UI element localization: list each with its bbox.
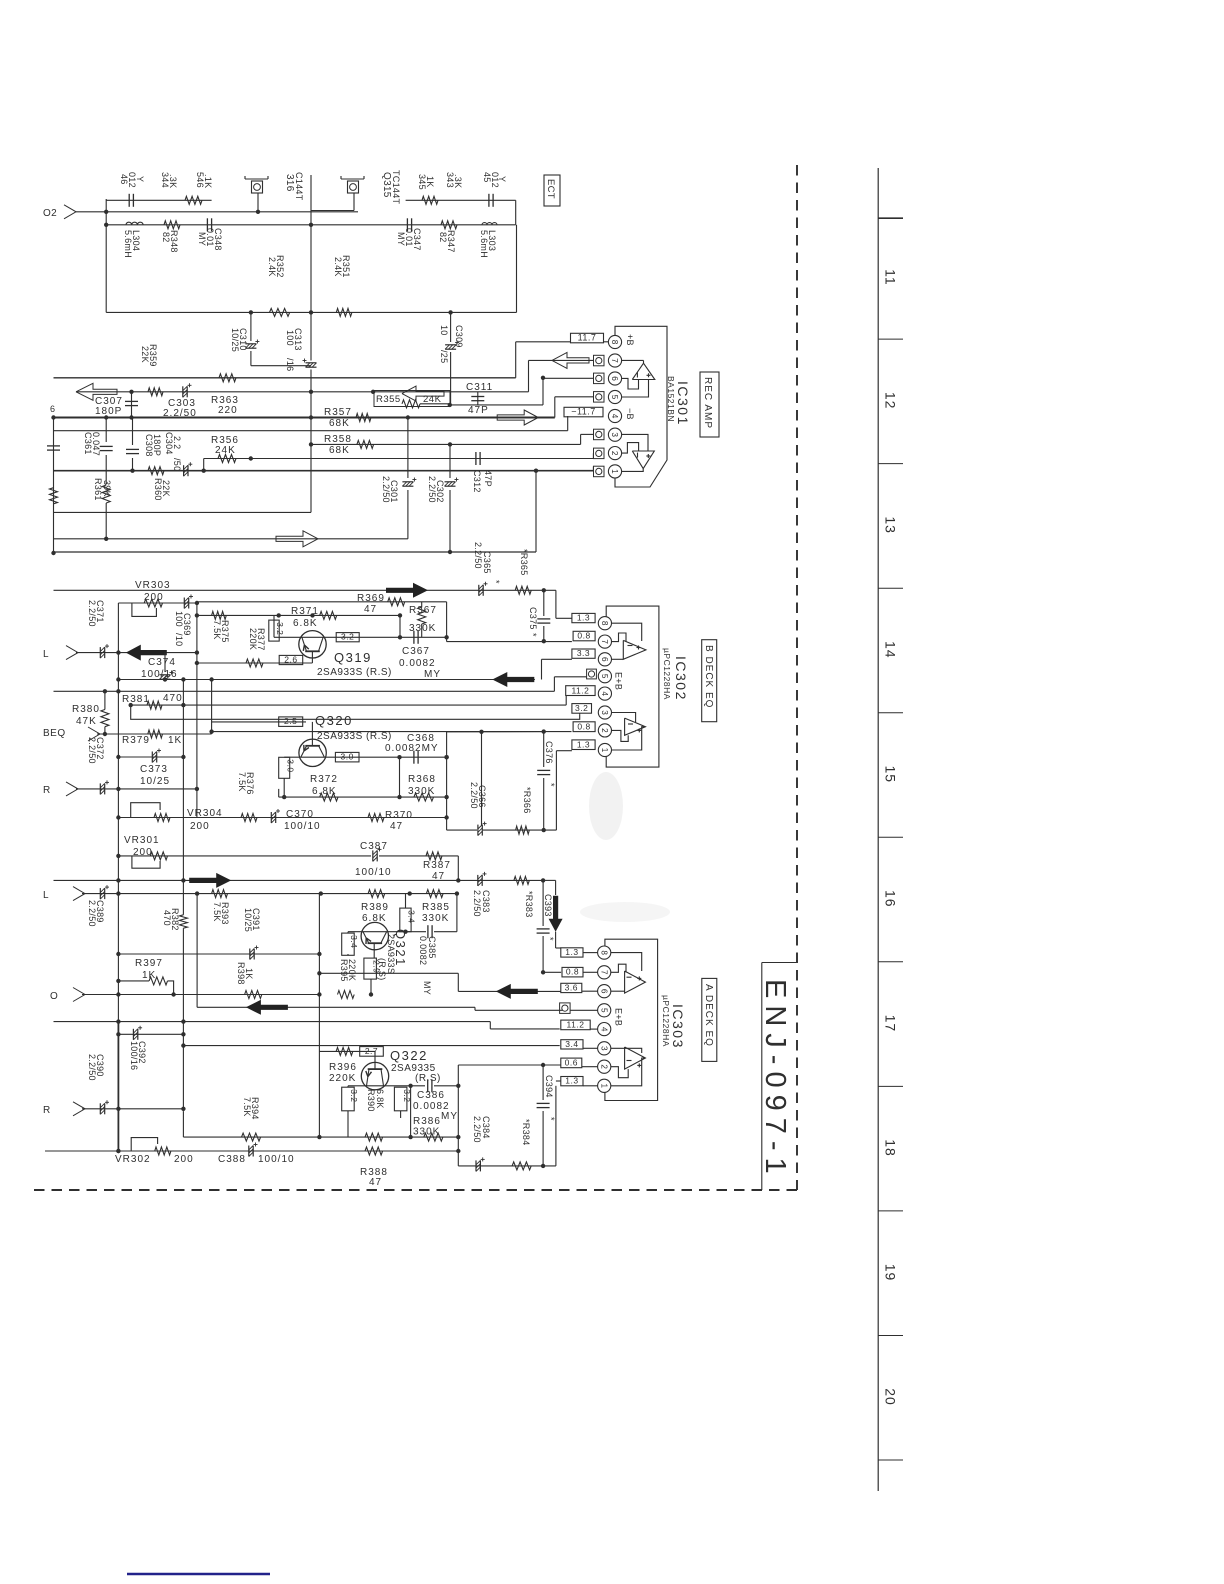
capacitor C370 100/10 — [271, 809, 320, 832]
op-amp IC303 outline — [605, 939, 658, 1100]
svg-text:0.0082MY: 0.0082MY — [385, 743, 439, 754]
svg-text:1.3: 1.3 — [565, 1076, 578, 1086]
svg-text:R372: R372 — [310, 774, 338, 785]
transistor Q321 2SA933S — [361, 922, 408, 980]
resistor R344 .3K (clipped) — [160, 172, 202, 204]
svg-text:2: 2 — [600, 728, 609, 733]
ECT box label — [544, 175, 560, 206]
wire net R381 loop to IC302 pin3 — [131, 705, 580, 719]
voltage box 2.5 at Q320 base — [279, 716, 303, 726]
svg-text:2.2/50: 2.2/50 — [469, 782, 479, 809]
svg-text:1K: 1K — [142, 970, 156, 981]
resistor R360 22K — [148, 467, 171, 501]
svg-text:2SA933S (R.S): 2SA933S (R.S) — [317, 667, 392, 678]
svg-text:11.2: 11.2 — [571, 685, 589, 695]
capacitor C376 — [537, 732, 556, 831]
wire left rail x53 — [50, 404, 56, 555]
wire net IC301 pin3 line R358 — [311, 434, 594, 444]
svg-text:0.6: 0.6 — [565, 1058, 578, 1068]
svg-text:11.2: 11.2 — [567, 1020, 585, 1030]
svg-text:C387: C387 — [360, 841, 388, 852]
svg-text:0.047: 0.047 — [91, 432, 101, 456]
resistor R369 47 — [357, 593, 405, 615]
svg-text:6.8K: 6.8K — [293, 618, 318, 629]
svg-text:7: 7 — [599, 970, 608, 975]
label IC301 — [675, 381, 691, 426]
voltage boxes IC303 pins — [560, 947, 591, 1086]
svg-text:22K: 22K — [140, 346, 150, 363]
svg-text:MY: MY — [422, 981, 432, 995]
svg-text:6: 6 — [50, 404, 55, 414]
wire net Q320 emitter chord line — [284, 755, 449, 759]
svg-text:5: 5 — [600, 674, 609, 679]
svg-text:200: 200 — [174, 1154, 194, 1165]
resistor R370 47 — [368, 810, 413, 832]
svg-text:470: 470 — [162, 910, 172, 926]
svg-text:5: 5 — [610, 395, 619, 400]
svg-text:C376: C376 — [544, 741, 554, 764]
wire net IC302 pin7 line — [447, 641, 572, 643]
svg-text:L: L — [43, 890, 49, 901]
svg-text:3.4: 3.4 — [349, 935, 359, 948]
resistor R385 330K — [422, 890, 450, 924]
svg-text:3.3: 3.3 — [577, 648, 590, 658]
resistor R384 — [512, 1119, 531, 1170]
signal arrow left black on SL line — [126, 645, 167, 661]
capacitor C388 100/10 — [218, 1143, 295, 1166]
wire vertical x458 A deck — [456, 1065, 460, 1166]
resistor R371 6.8K — [291, 606, 337, 629]
svg-text:2.2/50: 2.2/50 — [473, 542, 483, 569]
resistor R390 zigzag — [365, 1133, 383, 1141]
resistor R389 6.8K — [361, 890, 389, 924]
wire net Q321 left rail x320 — [318, 995, 320, 1138]
ruler numbers 11-20 — [883, 269, 899, 1406]
input SL upper — [43, 646, 78, 660]
capacitor on left rail (C361 pair) — [47, 446, 60, 450]
svg-text:µPC1228HA: µPC1228HA — [662, 648, 672, 700]
svg-text:O2: O2 — [43, 208, 57, 219]
wire net R379 bus right portion — [447, 731, 544, 733]
resistor R396 220K — [329, 1047, 357, 1084]
resistor R365 — [515, 549, 531, 594]
svg-text:2.6: 2.6 — [284, 654, 297, 664]
resistor R382 470 — [162, 880, 187, 1034]
svg-text:2.2/50: 2.2/50 — [87, 737, 97, 764]
capacitor C369 100/10 — [174, 595, 193, 647]
wire net +B line to IC301 pin8 — [54, 342, 571, 380]
wire net O line R398 — [82, 954, 322, 997]
svg-text:C374: C374 — [148, 657, 176, 668]
svg-text:R396: R396 — [329, 1062, 357, 1073]
svg-text:A DECK EQ: A DECK EQ — [703, 984, 714, 1047]
signal arrow left black to IC302 pin6 — [492, 672, 534, 687]
resistor R356 24K — [211, 435, 239, 463]
voltage box 3.2 at Q319 emitter — [336, 632, 359, 642]
svg-text:3.6: 3.6 — [565, 982, 578, 992]
transistor Q316 (partial, clipped) — [245, 176, 268, 212]
svg-text:2.2/50: 2.2/50 — [427, 476, 437, 503]
svg-text:330K: 330K — [409, 623, 436, 634]
svg-text:C367: C367 — [402, 646, 430, 657]
wire net R369 line — [195, 601, 447, 642]
capacitor C312 47P — [472, 452, 493, 493]
svg-text:3.4: 3.4 — [407, 910, 417, 923]
wire vertical rail x118 B deck — [117, 603, 119, 880]
label Q315 TC144T — [381, 170, 401, 205]
svg-text:3.2: 3.2 — [575, 703, 588, 713]
inductor L303 5.6mH — [479, 223, 497, 258]
svg-text:R390: R390 — [366, 1089, 376, 1112]
wire net R375 line — [195, 613, 281, 617]
svg-text:10: 10 — [439, 325, 449, 336]
svg-text:TC144T: TC144T — [391, 170, 401, 205]
svg-text:C144T: C144T — [294, 172, 304, 201]
svg-text:0.8: 0.8 — [566, 967, 579, 977]
svg-text:R379: R379 — [122, 735, 150, 746]
resistor R379 1K — [122, 730, 182, 746]
capacitor C393 — [537, 880, 555, 974]
svg-text:L: L — [43, 649, 49, 660]
svg-text:*: * — [545, 937, 555, 941]
svg-text:*R366: *R366 — [522, 787, 532, 814]
voltage box 3.2 left of Q319 — [269, 615, 285, 641]
resistor R380 47K — [72, 691, 109, 734]
title box ENJ-097-1 — [759, 963, 796, 1191]
svg-text:VR301: VR301 — [124, 835, 160, 846]
svg-text:3: 3 — [600, 710, 609, 715]
svg-text:1: 1 — [610, 469, 619, 474]
signal arrow down black to IC303 pin8 — [549, 880, 563, 948]
capacitor C387 100/10 — [355, 841, 392, 878]
svg-text:C375: C375 — [528, 607, 538, 630]
resistor R376 7.5K — [237, 772, 257, 822]
svg-text:MY: MY — [424, 669, 441, 680]
svg-text:BA1521BN: BA1521BN — [666, 376, 676, 422]
svg-text:1K: 1K — [168, 735, 182, 746]
wire net C386 chord line — [348, 1079, 458, 1137]
resistor R395 220K — [338, 959, 358, 999]
svg-text:330K: 330K — [413, 1127, 440, 1138]
resistor R393 7.5K — [212, 890, 230, 925]
svg-text:5.6mH: 5.6mH — [479, 230, 489, 258]
voltage box 2.6 at Q319 base — [279, 654, 303, 664]
svg-text:100: 100 — [285, 330, 295, 346]
capacitor C345 (clipped) with label 45 012 Y — [406, 172, 516, 207]
svg-text:2SA933S (R.S): 2SA933S (R.S) — [317, 731, 392, 742]
voltage boxes IC302 pins — [566, 613, 597, 750]
svg-text:R361: R361 — [93, 478, 103, 501]
svg-text:11: 11 — [883, 269, 899, 286]
wire net IC301 pin1 line — [54, 467, 594, 553]
op-amp IC303 B (pins 1-3) — [611, 1047, 646, 1086]
svg-text:Q315: Q315 — [381, 172, 392, 198]
wire vertical rail x183 A deck — [181, 1034, 241, 1137]
svg-text:18: 18 — [883, 1139, 899, 1157]
resistor R388 47 — [360, 1147, 388, 1188]
resistor R394 7.5K — [242, 1097, 261, 1141]
svg-text:*: * — [546, 1117, 556, 1121]
svg-text:/50: /50 — [172, 458, 182, 471]
wire net SL line B deck — [76, 650, 199, 654]
svg-text:68K: 68K — [329, 418, 350, 429]
capacitor C313 100/16 — [285, 328, 317, 371]
resistor R387 47 — [379, 852, 458, 882]
svg-text:4: 4 — [599, 1027, 608, 1032]
svg-text:1.3: 1.3 — [577, 739, 590, 749]
svg-text:4: 4 — [600, 691, 609, 696]
svg-text:39K: 39K — [102, 480, 112, 497]
svg-text:100/10: 100/10 — [258, 1154, 295, 1165]
wire net IC301 pin6 line — [448, 378, 594, 407]
capacitor C346 (clipped) with label 46 012 Y — [106, 172, 211, 207]
svg-text:µPC1228HA: µPC1228HA — [661, 995, 671, 1047]
wire net IC301 pin2 line R356 C312 — [202, 453, 594, 473]
label C386 0.0082 MY — [413, 1090, 458, 1122]
resistor R361 39K — [93, 478, 112, 539]
svg-text:16: 16 — [883, 890, 899, 908]
capacitor C391 10/25 — [243, 908, 261, 960]
svg-text:11.7: 11.7 — [578, 333, 597, 343]
wire net C374 line to IC302 pin6 — [116, 659, 572, 681]
capacitor C307 180P — [95, 392, 138, 418]
svg-text:220: 220 — [218, 405, 238, 416]
signal arrow left on pin7 net — [76, 383, 117, 400]
svg-text:+B: +B — [625, 334, 635, 346]
svg-text:C312: C312 — [472, 470, 482, 493]
svg-text:10/25: 10/25 — [140, 776, 170, 787]
signal arrow right on return line — [276, 531, 318, 547]
svg-text:0.8: 0.8 — [577, 631, 590, 641]
resistor R375 7.5K — [212, 611, 230, 642]
wire net pin5 line y691 — [54, 677, 587, 694]
svg-text:R370: R370 — [385, 810, 413, 821]
wire net B deck bottom line — [447, 751, 572, 833]
svg-text:7.5K: 7.5K — [212, 620, 222, 640]
capacitor C365 2.2/50 — [473, 542, 501, 596]
label IC303 — [670, 1004, 686, 1049]
svg-text:*R384: *R384 — [521, 1119, 531, 1146]
label R390 6.8K — [366, 1089, 385, 1112]
resistor R372 6.8K — [310, 774, 338, 801]
op-amp IC302 B (pins 1-3) — [611, 713, 645, 751]
voltage box 3.4 left of Q321 — [342, 932, 359, 956]
svg-text:E+B: E+B — [614, 1008, 624, 1026]
svg-text:14: 14 — [883, 641, 899, 659]
svg-text:2.2/50: 2.2/50 — [87, 1054, 97, 1081]
signal arrow left black on A pin5 line — [246, 1000, 288, 1015]
svg-text:0.8: 0.8 — [577, 721, 590, 731]
svg-text:19: 19 — [883, 1264, 899, 1282]
wire net IC303 pin2 line — [458, 1063, 561, 1067]
svg-text:/25: /25 — [439, 350, 449, 363]
resistor R398 1K — [236, 962, 262, 999]
svg-text:VR304: VR304 — [187, 808, 223, 819]
potentiometer VR302 200 and bottom bus — [45, 1138, 458, 1165]
svg-text:0.0082: 0.0082 — [399, 658, 436, 669]
wire stubs IC303 boxes to pins — [570, 953, 598, 1086]
svg-text:1.3: 1.3 — [577, 613, 590, 623]
label E+B at IC302 — [614, 672, 624, 690]
svg-text:R371: R371 — [291, 606, 319, 617]
svg-text:Q319: Q319 — [334, 650, 372, 665]
svg-text:R369: R369 — [357, 593, 385, 604]
label uPC1228HA IC303 — [661, 995, 671, 1047]
svg-text:IC303: IC303 — [670, 1004, 686, 1049]
resistor R363 220 — [148, 388, 239, 416]
svg-text:47P: 47P — [483, 470, 493, 487]
wire net B+ line y590 with arrow — [54, 588, 572, 618]
wire net A deck bottom line — [458, 1081, 561, 1166]
svg-text:1: 1 — [599, 1084, 608, 1089]
svg-text:100/10: 100/10 — [284, 821, 321, 832]
input SL lower — [43, 887, 85, 901]
svg-text:2: 2 — [599, 1064, 608, 1069]
svg-text:*R365: *R365 — [519, 549, 529, 576]
transistor Q320 2SA933S — [299, 713, 392, 767]
label E+B at IC303 — [614, 1008, 624, 1026]
connector pin stack IC303 — [598, 946, 611, 1092]
wire net A+ line y880 with arrow — [54, 878, 556, 882]
resistor on left rail (R361 pair) — [50, 488, 58, 504]
pin terminal boxes IC301 — [594, 355, 605, 476]
voltage box 2.7 at Q322 base — [360, 1046, 384, 1056]
svg-text:8: 8 — [599, 950, 608, 955]
wire net C391 line — [116, 894, 321, 957]
svg-text:R367: R367 — [409, 605, 437, 616]
svg-text:220K: 220K — [329, 1073, 356, 1084]
svg-text:316: 316 — [284, 174, 295, 192]
wire net filter line right — [311, 200, 516, 225]
capacitor C310 10/25 — [230, 312, 311, 365]
svg-text:Y: Y — [497, 176, 507, 182]
svg-text:VR303: VR303 — [135, 580, 171, 591]
svg-text:2.4K: 2.4K — [333, 257, 343, 277]
svg-text:.1K: .1K — [203, 174, 213, 188]
svg-text:3.4: 3.4 — [565, 1039, 578, 1049]
svg-text:2: 2 — [610, 451, 619, 456]
connector pin stack IC302 — [598, 617, 611, 757]
svg-text:R386: R386 — [413, 1116, 441, 1127]
wire net IC301 pin7 line with signal arrow — [76, 360, 594, 394]
resistor R366 — [516, 787, 532, 834]
scan smudge artifacts — [580, 772, 670, 922]
wire net SL line A deck — [82, 891, 323, 895]
capacitor C308 180P — [126, 418, 162, 471]
resistor R359 22K — [140, 344, 236, 382]
svg-text:8: 8 — [610, 340, 619, 345]
dashed border bottom edge — [34, 1189, 800, 1191]
svg-text:R380: R380 — [72, 704, 100, 715]
svg-text:24K: 24K — [423, 394, 442, 405]
wire net R371 line — [279, 613, 402, 617]
ruler vertical line — [877, 168, 879, 1491]
resistor R367 330K — [409, 602, 437, 638]
svg-text:R355: R355 — [376, 394, 401, 405]
svg-text:3.2: 3.2 — [275, 622, 285, 635]
svg-text:330K: 330K — [408, 786, 435, 797]
capacitor C394 — [537, 1065, 556, 1168]
transistor Q315 (partial, clipped) — [311, 176, 364, 211]
resistor R357 68K — [324, 407, 371, 429]
svg-text:.3K: .3K — [168, 174, 178, 188]
label IC302 — [673, 656, 689, 701]
capacitor C383 2.2/50 — [472, 872, 491, 917]
label C385 0.0082 MY — [418, 936, 437, 995]
wire net loop line y512 — [54, 511, 312, 513]
svg-text:ENJ-097-1: ENJ-097-1 — [759, 979, 791, 1181]
svg-text:10/25: 10/25 — [230, 328, 240, 352]
svg-text:24K: 24K — [215, 445, 236, 456]
svg-text:C373: C373 — [140, 764, 168, 775]
voltage box 2.9 below Q321 — [364, 943, 381, 997]
svg-text:2.4K: 2.4K — [267, 257, 277, 277]
resistor R381 470 — [122, 693, 183, 709]
capacitor C309 10/25 — [439, 312, 464, 405]
svg-text:Q320: Q320 — [315, 713, 353, 728]
svg-text:47: 47 — [390, 821, 403, 832]
svg-text:7: 7 — [610, 358, 619, 363]
voltage box 3.2 right below Q322 — [394, 1087, 411, 1118]
input SR lower — [43, 1102, 85, 1116]
svg-text:5: 5 — [599, 1008, 608, 1013]
svg-text:47: 47 — [369, 1177, 382, 1188]
capacitor C389 2.2/50 — [87, 885, 109, 927]
input O2 — [43, 205, 76, 219]
svg-text:C394: C394 — [544, 1075, 554, 1098]
label R346 .1K (clipped) — [195, 172, 213, 188]
svg-text:C311: C311 — [466, 382, 493, 393]
capacitor C392 100/16 — [129, 1026, 147, 1071]
wire net Q321 emitter chord line C385 — [348, 894, 457, 939]
svg-text:/16: /16 — [285, 358, 295, 371]
voltage box 3.4 right of Q321 — [400, 894, 417, 932]
label Q316 C144T — [284, 172, 304, 201]
svg-text:R357: R357 — [324, 407, 352, 418]
ruler ticks — [878, 218, 903, 1460]
svg-text:3: 3 — [599, 1046, 608, 1051]
resistor R345 1K (clipped) — [417, 174, 438, 204]
wire net R351 R352 line — [106, 225, 516, 315]
voltage box 3.0 at Q320 emitter — [335, 752, 359, 762]
svg-text:68K: 68K — [329, 445, 350, 456]
svg-text:R: R — [43, 1105, 51, 1116]
svg-text:C393: C393 — [543, 894, 553, 917]
svg-text:3.0: 3.0 — [285, 759, 295, 772]
svg-text:B DECK EQ: B DECK EQ — [703, 645, 714, 708]
svg-text:200: 200 — [190, 821, 210, 832]
wire net C392 line — [116, 1032, 185, 1036]
svg-text:4: 4 — [610, 414, 619, 419]
label box B DECK EQ — [702, 640, 717, 722]
svg-text:1.3: 1.3 — [565, 947, 578, 957]
svg-text:E+B: E+B — [614, 672, 624, 690]
svg-text:*: * — [528, 633, 538, 637]
svg-text:1: 1 — [600, 748, 609, 753]
capacitor C348 0.01 MY — [197, 218, 223, 250]
svg-text:100/10: 100/10 — [355, 867, 392, 878]
svg-text:7.5K: 7.5K — [212, 902, 222, 922]
wire net pin5 line A deck with arrow — [197, 894, 562, 1011]
wire net IC301 pin4 -B line — [54, 416, 568, 431]
svg-text:MY: MY — [441, 1111, 458, 1122]
resistor R386 330K — [413, 1116, 443, 1141]
input O lower — [50, 988, 85, 1003]
resistor R377 220K — [246, 628, 266, 667]
svg-text:−B: −B — [625, 408, 635, 420]
capacitor C303 2.2/50 — [163, 383, 197, 419]
label +B at pin8 — [625, 334, 635, 346]
